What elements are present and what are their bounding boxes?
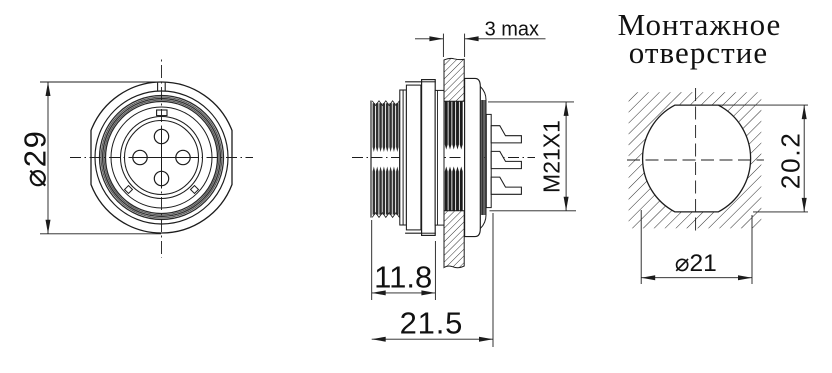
svg-text:⌀29: ⌀29 [18, 130, 53, 188]
svg-text:11.8: 11.8 [374, 259, 432, 294]
svg-text:21.5: 21.5 [400, 306, 464, 341]
svg-text:3 max: 3 max [485, 19, 539, 41]
svg-text:20.2: 20.2 [776, 131, 806, 189]
svg-text:⌀21: ⌀21 [675, 250, 717, 277]
svg-text:отверстие: отверстие [629, 35, 768, 70]
svg-text:M21X1: M21X1 [539, 120, 565, 193]
